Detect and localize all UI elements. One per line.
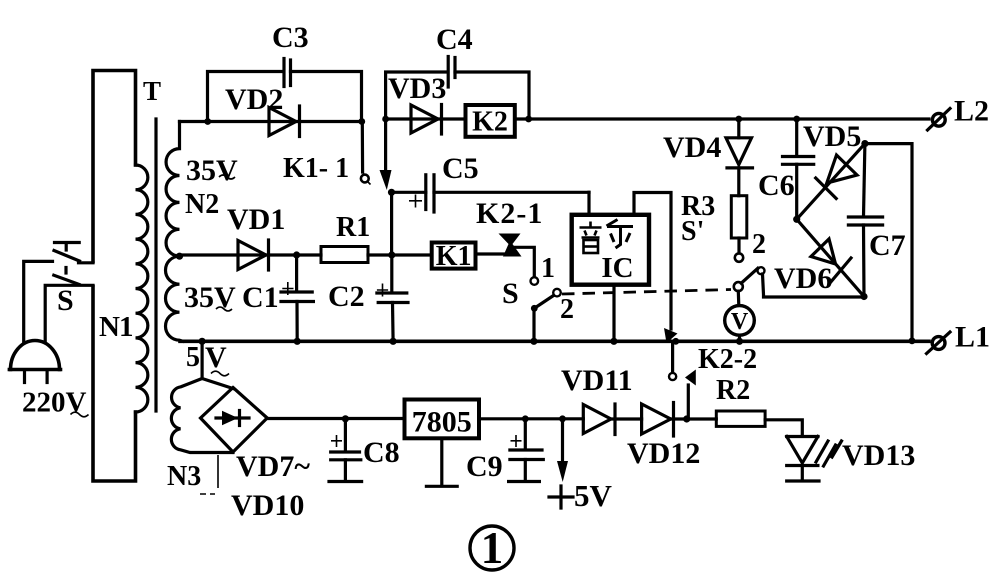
svg-text:2: 2 bbox=[752, 229, 766, 260]
svg-text:VD2: VD2 bbox=[225, 83, 283, 116]
svg-text:C1: C1 bbox=[242, 281, 279, 314]
svg-text:35V: 35V bbox=[184, 281, 236, 314]
svg-text:C6: C6 bbox=[758, 169, 795, 202]
svg-text:35V: 35V bbox=[186, 154, 238, 187]
svg-text:K2-1: K2-1 bbox=[476, 197, 543, 230]
svg-text:R1: R1 bbox=[336, 212, 370, 243]
svg-text:S': S' bbox=[681, 216, 704, 247]
svg-text:C2: C2 bbox=[328, 280, 365, 313]
svg-text:S: S bbox=[502, 277, 519, 310]
svg-text:T: T bbox=[143, 76, 161, 106]
svg-text:VD3: VD3 bbox=[388, 72, 446, 105]
svg-text:VD6: VD6 bbox=[774, 262, 832, 295]
svg-text:C9: C9 bbox=[466, 450, 503, 483]
svg-text:7805: 7805 bbox=[412, 406, 472, 439]
svg-text:VD11: VD11 bbox=[561, 364, 633, 397]
svg-text:VD7~: VD7~ bbox=[236, 450, 310, 483]
svg-text:1: 1 bbox=[541, 253, 555, 284]
svg-text:C5: C5 bbox=[442, 152, 479, 185]
svg-text:N1: N1 bbox=[99, 311, 132, 343]
svg-text:S: S bbox=[57, 284, 74, 317]
svg-text:1: 1 bbox=[481, 523, 504, 573]
svg-text:K1: K1 bbox=[436, 241, 472, 272]
svg-text:220V: 220V bbox=[22, 387, 87, 419]
svg-text:N3: N3 bbox=[167, 461, 201, 492]
svg-text:K2: K2 bbox=[472, 107, 508, 138]
svg-text:L1: L1 bbox=[955, 321, 990, 354]
svg-text:VD5: VD5 bbox=[803, 120, 861, 153]
svg-text:2: 2 bbox=[560, 294, 574, 325]
svg-text:IC: IC bbox=[601, 252, 633, 284]
svg-text:C4: C4 bbox=[436, 23, 473, 56]
svg-text:C3: C3 bbox=[272, 21, 309, 54]
svg-text:R2: R2 bbox=[716, 375, 750, 406]
svg-text:N2: N2 bbox=[185, 189, 219, 220]
svg-text:5: 5 bbox=[186, 342, 200, 373]
svg-text:VD1: VD1 bbox=[227, 203, 285, 236]
svg-text:V: V bbox=[205, 341, 227, 374]
svg-text:K2-2: K2-2 bbox=[698, 344, 757, 375]
svg-text:VD12: VD12 bbox=[627, 437, 700, 470]
svg-text:L2: L2 bbox=[954, 95, 989, 128]
svg-text:C7: C7 bbox=[869, 229, 906, 262]
svg-text:VD13: VD13 bbox=[842, 439, 915, 472]
svg-text:V: V bbox=[731, 309, 749, 335]
svg-text:VD10: VD10 bbox=[231, 489, 304, 522]
svg-text:C8: C8 bbox=[363, 436, 400, 469]
svg-text:5V: 5V bbox=[574, 478, 613, 513]
svg-text:K1- 1: K1- 1 bbox=[283, 153, 349, 184]
svg-text:VD4: VD4 bbox=[663, 131, 721, 164]
